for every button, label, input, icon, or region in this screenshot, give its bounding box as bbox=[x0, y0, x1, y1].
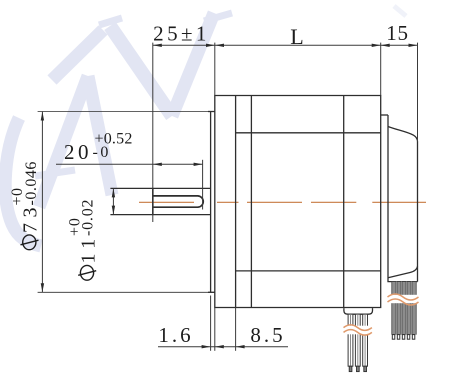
bottom lead tinned tips bbox=[349, 366, 366, 371]
watermark letter N left stem bbox=[52, 18, 122, 80]
watermark letter N diagonal bbox=[110, 26, 172, 116]
arrowheads dim 25 bbox=[153, 44, 215, 47]
rear end-cap front edge bbox=[343, 96, 345, 308]
svg-text:73: 73 bbox=[19, 202, 41, 233]
stator stack bottom line bbox=[236, 270, 381, 272]
bottom lead wires (group of leads) bbox=[348, 314, 367, 366]
dimension line 20 (flat length) bbox=[56, 163, 203, 165]
label dia73 +0/-0.046 (rotated) bbox=[9, 161, 42, 233]
arrowheads dim 20 bbox=[153, 163, 203, 166]
rear wire cover bottom shoulder curve bbox=[388, 266, 418, 278]
shaft end face at flat start bbox=[152, 188, 154, 215]
diameter symbol for dia73 bbox=[21, 235, 39, 250]
pilot boss top edge with dia73 extension line bbox=[38, 111, 215, 113]
extension line above front face bbox=[214, 43, 216, 96]
front end-cap back edge bbox=[250, 96, 252, 308]
watermark wisp top right bbox=[394, 6, 406, 16]
motor body outer rectangle bbox=[215, 96, 381, 308]
arrowheads dim dia11 bbox=[112, 188, 115, 214]
watermark letter C bbox=[5, 118, 41, 246]
watermark letter A crossbar bbox=[35, 170, 75, 176]
extension line below front face bbox=[214, 308, 216, 351]
arrowheads dim L bbox=[215, 44, 381, 47]
rear wire cover bottom lip bbox=[388, 278, 418, 282]
extension line below boss face bbox=[210, 296, 212, 351]
diameter symbol for dia11 bbox=[78, 265, 96, 280]
rear wire cover top shoulder curve bbox=[388, 127, 418, 142]
extension line at shaft flat start bbox=[152, 43, 154, 222]
svg-text:15: 15 bbox=[386, 21, 409, 45]
arrowhead dim 8.5 bbox=[236, 345, 245, 348]
shaft milled flat (keyway) outline bbox=[153, 196, 203, 207]
dimension line dia11 bbox=[112, 188, 114, 214]
svg-text:20: 20 bbox=[64, 140, 92, 164]
stator stack top line bbox=[236, 132, 381, 134]
bottom dimension line 1.6/8.5 bbox=[158, 346, 288, 348]
svg-text:11: 11 bbox=[78, 233, 100, 263]
extension line right of cover bbox=[417, 43, 419, 142]
shaft top edge with dia11 extension bbox=[110, 187, 210, 189]
arrowheads dim 15 bbox=[381, 44, 418, 47]
watermark letter N right stem bbox=[172, 13, 232, 116]
svg-text:8.5: 8.5 bbox=[250, 323, 285, 347]
watermark letter A right leg bbox=[88, 76, 112, 195]
dimension line dia73 bbox=[41, 112, 43, 293]
arrowheads dim 1.6 bbox=[202, 345, 224, 348]
right ribbon crimp terminals bbox=[392, 335, 415, 340]
svg-text:-0.046: -0.046 bbox=[23, 161, 40, 205]
extension line below flange back bbox=[235, 308, 237, 351]
right ribbon break waves bbox=[387, 294, 420, 305]
top dimension line 25/L/15 bbox=[153, 44, 418, 46]
watermark letter A left leg bbox=[39, 76, 88, 207]
rear wire cover left edge bbox=[387, 115, 389, 278]
bottom wire exit boss bbox=[344, 308, 373, 314]
extension line at flat right end bbox=[202, 160, 204, 210]
rear wire cover right edge bbox=[417, 142, 419, 282]
bottom lead break waves bbox=[344, 325, 372, 335]
svg-text:L: L bbox=[290, 24, 303, 49]
shaft bottom edge with dia11 extension bbox=[110, 214, 210, 216]
svg-text:1.6: 1.6 bbox=[158, 323, 193, 347]
shaft centerline (orange chain line) bbox=[139, 201, 426, 203]
right lead ribbon (5 wires) bbox=[391, 282, 416, 335]
pilot boss bottom edge with dia73 extension line bbox=[38, 291, 215, 293]
extension line above rear face bbox=[380, 43, 382, 96]
svg-text:-0: -0 bbox=[93, 144, 111, 161]
rear wire cover top lip bbox=[381, 114, 388, 116]
arrowheads dim dia73 bbox=[41, 112, 44, 293]
pilot boss front face bbox=[210, 112, 212, 293]
front flange back edge bbox=[235, 96, 237, 308]
svg-text:-0.02: -0.02 bbox=[80, 199, 97, 236]
svg-text:25±1: 25±1 bbox=[153, 22, 210, 46]
label dia11 +0/-0.02 (rotated) bbox=[67, 199, 100, 264]
